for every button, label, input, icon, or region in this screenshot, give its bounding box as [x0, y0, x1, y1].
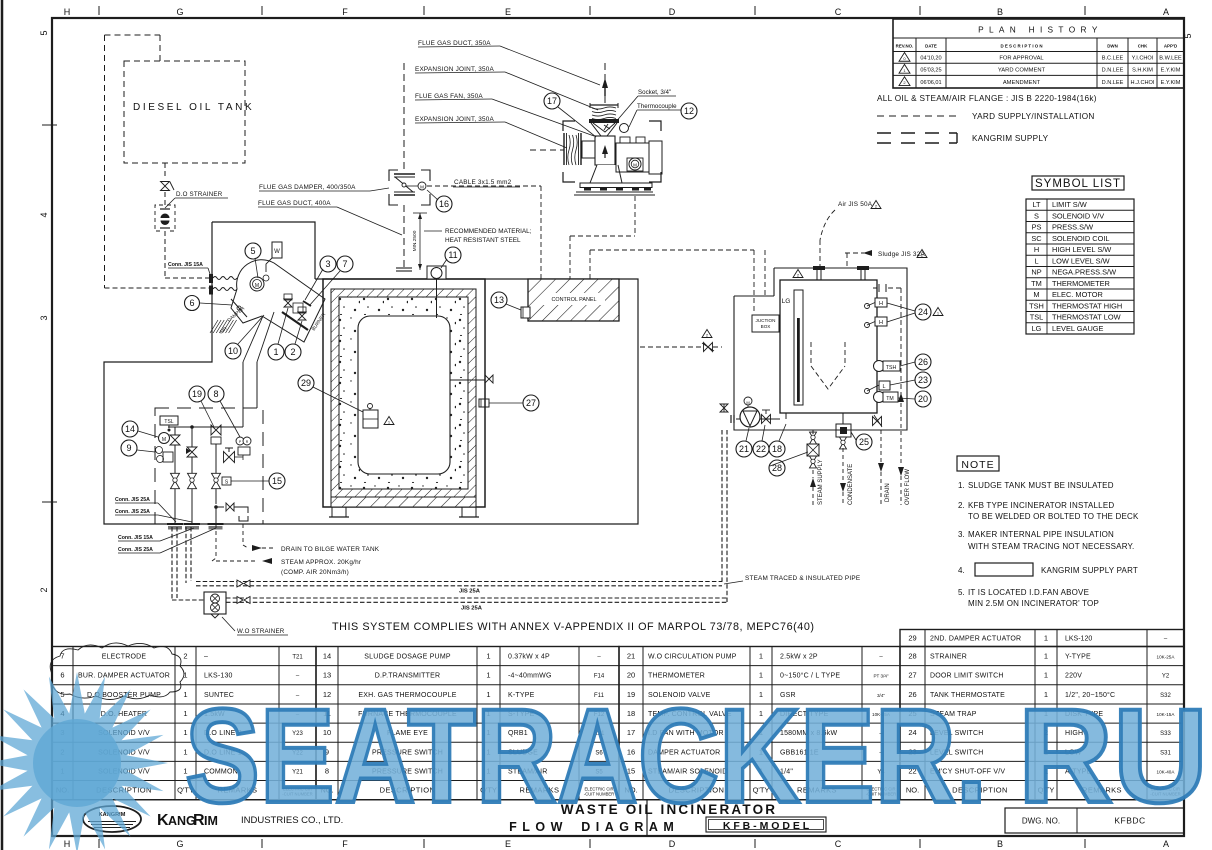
svg-text:Socket, 3/4": Socket, 3/4" — [638, 89, 671, 96]
svg-text:STEAM APPROX. 20Kg/hr: STEAM APPROX. 20Kg/hr — [281, 559, 362, 566]
svg-text:W.O CIRCULATION PUMP: W.O CIRCULATION PUMP — [648, 654, 737, 661]
svg-text:D.N.LEE: D.N.LEE — [1102, 68, 1124, 74]
svg-text:ELECTRODE: ELECTRODE — [102, 654, 147, 661]
svg-text:L: L — [882, 384, 885, 390]
svg-text:F: F — [342, 7, 348, 17]
svg-text:2ND. DAMPER ACTUATOR: 2ND. DAMPER ACTUATOR — [930, 636, 1021, 643]
svg-text:5: 5 — [250, 246, 255, 256]
svg-text:LEVEL GAUGE: LEVEL GAUGE — [1052, 324, 1104, 333]
svg-text:4.: 4. — [958, 566, 965, 575]
svg-text:STEAM TRACED & INSULATED PIPE: STEAM TRACED & INSULATED PIPE — [745, 575, 860, 582]
svg-text:M: M — [633, 163, 637, 168]
svg-text:MAKER INTERNAL PIPE INSULATION: MAKER INTERNAL PIPE INSULATION — [968, 530, 1114, 539]
svg-text:5.: 5. — [958, 588, 965, 597]
svg-text:TSH: TSH — [886, 365, 897, 371]
svg-text:14: 14 — [125, 424, 135, 434]
svg-text:27: 27 — [908, 671, 916, 680]
svg-text:E.Y.KIM: E.Y.KIM — [1161, 80, 1181, 86]
svg-text:Y.I.CHOI: Y.I.CHOI — [1132, 56, 1154, 62]
svg-text:OVER FLOW: OVER FLOW — [905, 469, 911, 505]
svg-text:17: 17 — [547, 96, 557, 106]
svg-text:NP: NP — [1031, 268, 1041, 277]
svg-text:1: 1 — [486, 671, 490, 680]
svg-text:H: H — [64, 839, 71, 849]
svg-text:1.: 1. — [958, 481, 965, 490]
svg-text:1: 1 — [1044, 634, 1048, 643]
svg-text:YARD SUPPLY/INSTALLATION: YARD SUPPLY/INSTALLATION — [972, 112, 1095, 121]
svg-text:BOX: BOX — [761, 324, 771, 329]
svg-text:0~150°C / L TYPE: 0~150°C / L TYPE — [780, 672, 840, 680]
svg-text:DATE: DATE — [925, 44, 937, 49]
svg-text:E.Y.KIM: E.Y.KIM — [1161, 68, 1181, 74]
svg-text:STRAINER: STRAINER — [930, 654, 967, 661]
svg-text:6: 6 — [189, 298, 194, 308]
svg-text:D.O STRAINER: D.O STRAINER — [176, 191, 223, 198]
svg-text:B: B — [997, 839, 1003, 849]
svg-text:SC: SC — [1031, 234, 1042, 243]
svg-text:TSL: TSL — [164, 419, 173, 425]
svg-text:1: 1 — [759, 671, 763, 680]
svg-text:CHK: CHK — [1138, 44, 1148, 49]
svg-text:SOLENOID COIL: SOLENOID COIL — [1052, 234, 1110, 243]
svg-text:RU: RU — [1018, 682, 1208, 831]
svg-text:L: L — [1034, 256, 1038, 265]
svg-text:MIN 2.5M ON INCINERATOR' TOP: MIN 2.5M ON INCINERATOR' TOP — [968, 599, 1099, 608]
svg-text:3.: 3. — [958, 530, 965, 539]
svg-text:HEAT RESISTANT STEEL: HEAT RESISTANT STEEL — [445, 237, 521, 244]
svg-text:Conn. JIS 15A: Conn. JIS 15A — [168, 262, 203, 268]
svg-text:SLUDGE DOSAGE PUMP: SLUDGE DOSAGE PUMP — [364, 654, 451, 661]
svg-text:MIN.2500: MIN.2500 — [412, 230, 418, 251]
svg-text:12: 12 — [684, 106, 694, 116]
svg-text:TM: TM — [1031, 279, 1042, 288]
svg-text:LT: LT — [1032, 200, 1041, 209]
svg-text:D E S C R I P T I O N: D E S C R I P T I O N — [1000, 44, 1042, 49]
svg-text:FLUE GAS DAMPER, 400/350A: FLUE GAS DAMPER, 400/350A — [259, 184, 356, 191]
svg-text:CABLE 3x1.5 mm2: CABLE 3x1.5 mm2 — [454, 179, 512, 186]
svg-text:27: 27 — [526, 398, 536, 408]
svg-text:LIMIT S/W: LIMIT S/W — [1052, 200, 1087, 209]
svg-text:23: 23 — [918, 375, 928, 385]
svg-text:LG: LG — [1032, 324, 1042, 333]
svg-text:H.J.CHOI: H.J.CHOI — [1131, 80, 1155, 86]
svg-text:F14: F14 — [594, 674, 605, 680]
svg-text:A: A — [1163, 7, 1169, 17]
svg-text:STEAM SUPPLY: STEAM SUPPLY — [818, 459, 824, 505]
svg-text:YARD COMMENT: YARD COMMENT — [998, 68, 1046, 74]
svg-text:Y-TYPE: Y-TYPE — [1065, 654, 1091, 661]
svg-text:20: 20 — [918, 394, 928, 404]
svg-text:E: E — [505, 839, 511, 849]
svg-text:LOW LEVEL S/W: LOW LEVEL S/W — [1052, 256, 1110, 265]
svg-text:2: 2 — [39, 587, 49, 592]
svg-text:WITH STEAM TRACING NOT NECESSA: WITH STEAM TRACING NOT NECESSARY. — [968, 542, 1134, 551]
svg-text:DRAIN: DRAIN — [885, 483, 891, 502]
svg-text:Thermocouple: Thermocouple — [637, 103, 677, 110]
svg-text:LKS-120: LKS-120 — [1065, 636, 1092, 643]
svg-text:H: H — [64, 7, 71, 17]
svg-text:24: 24 — [918, 307, 928, 317]
svg-text:ELEC. MOTOR: ELEC. MOTOR — [1052, 290, 1103, 299]
svg-text:NOTE: NOTE — [961, 459, 994, 471]
svg-text:A: A — [1163, 839, 1169, 849]
svg-text:7: 7 — [342, 259, 347, 269]
svg-text:REV.NO.: REV.NO. — [896, 44, 914, 49]
svg-text:3: 3 — [39, 315, 49, 320]
svg-text:1: 1 — [1044, 671, 1048, 680]
svg-text:2: 2 — [290, 347, 295, 357]
svg-text:Conn. JIS 25A: Conn. JIS 25A — [115, 497, 150, 503]
svg-text:LKS-130: LKS-130 — [204, 673, 233, 680]
svg-text:APP'D: APP'D — [1164, 44, 1177, 49]
svg-text:SOLENOID V/V: SOLENOID V/V — [1052, 211, 1104, 220]
svg-text:6: 6 — [60, 671, 64, 680]
svg-text:W: W — [274, 249, 280, 255]
svg-text:KANGRIM SUPPLY PART: KANGRIM SUPPLY PART — [1041, 566, 1138, 575]
svg-text:TSH: TSH — [1029, 301, 1044, 310]
svg-text:29: 29 — [301, 378, 311, 388]
svg-text:B.C.LEE: B.C.LEE — [1102, 56, 1124, 62]
svg-text:JIS 25A: JIS 25A — [459, 589, 481, 595]
svg-text:G: G — [176, 7, 183, 17]
svg-text:29: 29 — [908, 634, 916, 643]
svg-text:05'03,25: 05'03,25 — [920, 68, 941, 74]
svg-text:1: 1 — [1044, 652, 1048, 661]
svg-text:IT IS LOCATED I.D.FAN ABOVE: IT IS LOCATED I.D.FAN ABOVE — [968, 588, 1089, 597]
svg-text:0.37kW x 4P: 0.37kW x 4P — [508, 654, 550, 661]
svg-text:PS: PS — [1032, 223, 1042, 232]
svg-text:AMENDMENT: AMENDMENT — [1003, 80, 1041, 86]
svg-text:13: 13 — [323, 671, 331, 680]
svg-text:FLUE GAS DUCT, 400A: FLUE GAS DUCT, 400A — [258, 200, 331, 207]
svg-text:21: 21 — [627, 652, 635, 661]
svg-text:BUR. DAMPER ACTUATOR: BUR. DAMPER ACTUATOR — [78, 673, 170, 680]
svg-text:THERMOSTAT LOW: THERMOSTAT LOW — [1052, 313, 1121, 322]
svg-text:21: 21 — [739, 444, 749, 454]
svg-text:C: C — [835, 7, 842, 17]
svg-text:D: D — [669, 7, 676, 17]
svg-text:B.W.LEE: B.W.LEE — [1159, 56, 1182, 62]
svg-text:KFB TYPE INCINERATOR INSTALLED: KFB TYPE INCINERATOR INSTALLED — [968, 501, 1114, 510]
svg-text:15: 15 — [272, 476, 282, 486]
svg-text:M: M — [162, 437, 166, 443]
svg-text:1: 1 — [486, 652, 490, 661]
svg-text:PRESS.S/W: PRESS.S/W — [1052, 223, 1093, 232]
svg-text:S.H.KIM: S.H.KIM — [1132, 68, 1153, 74]
svg-text:04'10,20: 04'10,20 — [920, 56, 941, 62]
svg-text:25: 25 — [859, 437, 869, 447]
svg-text:W.O STRAINER: W.O STRAINER — [237, 628, 285, 635]
svg-text:T21: T21 — [292, 655, 303, 661]
svg-text:1: 1 — [759, 652, 763, 661]
svg-text:2.: 2. — [958, 501, 965, 510]
svg-text:D.P.TRANSMITTER: D.P.TRANSMITTER — [375, 673, 441, 680]
svg-text:DOOR LIMIT SWITCH: DOOR LIMIT SWITCH — [930, 673, 1004, 680]
svg-text:SYMBOL LIST: SYMBOL LIST — [1035, 178, 1121, 190]
svg-text:NEGA.PRESS.S/W: NEGA.PRESS.S/W — [1052, 268, 1116, 277]
svg-text:RECOMMENDED MATERIAL;: RECOMMENDED MATERIAL; — [445, 228, 532, 235]
svg-text:JUCTION: JUCTION — [756, 318, 776, 323]
svg-text:4: 4 — [39, 212, 49, 217]
svg-text:TSL: TSL — [1030, 313, 1044, 322]
svg-text:(COMP. AIR 20Nm3/h): (COMP. AIR 20Nm3/h) — [281, 569, 349, 576]
svg-text:26: 26 — [918, 357, 928, 367]
svg-text:KANGRIM SUPPLY: KANGRIM SUPPLY — [972, 134, 1049, 143]
svg-text:F: F — [342, 839, 348, 849]
svg-text:HIGH LEVEL S/W: HIGH LEVEL S/W — [1052, 245, 1111, 254]
svg-text:P L A N H I S T O R Y: P L A N H I S T O R Y — [978, 25, 1099, 35]
svg-text:DIESEL OIL TANK: DIESEL OIL TANK — [133, 102, 254, 113]
svg-text:SEATRACKER.: SEATRACKER. — [185, 682, 987, 831]
svg-text:10K-25A: 10K-25A — [1157, 655, 1176, 660]
svg-text:M: M — [255, 283, 259, 289]
svg-text:Conn. JIS 15A: Conn. JIS 15A — [118, 535, 153, 541]
svg-text:B: B — [997, 7, 1003, 17]
svg-text:11: 11 — [448, 250, 457, 260]
svg-text:14: 14 — [323, 652, 331, 661]
svg-text:M: M — [420, 185, 424, 190]
svg-text:M: M — [746, 400, 749, 405]
svg-text:Sludge JIS 32A: Sludge JIS 32A — [878, 251, 925, 258]
svg-text:9: 9 — [126, 443, 131, 453]
svg-text:FOR APPROVAL: FOR APPROVAL — [999, 56, 1044, 62]
svg-text:E: E — [505, 7, 511, 17]
svg-text:2: 2 — [183, 652, 187, 661]
svg-text:18: 18 — [772, 444, 782, 454]
svg-text:THERMOMETER: THERMOMETER — [648, 673, 705, 680]
svg-text:D: D — [669, 839, 676, 849]
svg-text:28: 28 — [908, 652, 916, 661]
svg-text:1: 1 — [273, 347, 278, 357]
svg-text:TM: TM — [886, 396, 894, 402]
svg-text:220V: 220V — [1065, 673, 1082, 680]
svg-text:Conn. JIS 25A: Conn. JIS 25A — [118, 547, 153, 553]
svg-text:ALL OIL & STEAM/AIR FLANGE : J: ALL OIL & STEAM/AIR FLANGE : JIS B 2220-… — [877, 94, 1097, 103]
svg-text:2.5kW x 2P: 2.5kW x 2P — [780, 654, 818, 661]
svg-text:Air JIS 50A: Air JIS 50A — [838, 201, 873, 208]
svg-text:H: H — [879, 320, 883, 326]
svg-text:19: 19 — [192, 389, 202, 399]
svg-text:D.N.LEE: D.N.LEE — [1102, 80, 1124, 86]
svg-text:H: H — [1034, 245, 1039, 254]
svg-text:H: H — [879, 301, 883, 307]
svg-text:06'06,01: 06'06,01 — [920, 80, 941, 86]
svg-text:JIS 25A: JIS 25A — [461, 606, 483, 612]
svg-text:LG: LG — [782, 298, 791, 305]
svg-text:THIS SYSTEM COMPLIES WITH AN: THIS SYSTEM COMPLIES WITH ANNEX V-APPEND… — [332, 621, 815, 633]
svg-text:20: 20 — [627, 671, 635, 680]
svg-text:Y2: Y2 — [1162, 674, 1170, 680]
svg-text:CONDENSATE: CONDENSATE — [848, 464, 854, 505]
svg-text:8: 8 — [213, 389, 218, 399]
svg-text:–: – — [204, 654, 208, 661]
svg-text:C: C — [835, 839, 842, 849]
svg-text:TO BE WELDED OR BOLTED TO THE: TO BE WELDED OR BOLTED TO THE DECK — [968, 512, 1139, 521]
svg-text:SLUDGE TANK MUST BE INSULATED: SLUDGE TANK MUST BE INSULATED — [968, 481, 1114, 490]
svg-text:S: S — [1034, 211, 1039, 220]
svg-text:THERMOMETER: THERMOMETER — [1052, 279, 1110, 288]
svg-text:CONTROL PANEL: CONTROL PANEL — [552, 297, 597, 303]
svg-text:-4~40mmWG: -4~40mmWG — [508, 673, 552, 680]
svg-text:G: G — [176, 839, 183, 849]
svg-text:DWN: DWN — [1107, 44, 1118, 49]
svg-text:M: M — [1033, 290, 1039, 299]
svg-text:3: 3 — [325, 259, 330, 269]
svg-text:13: 13 — [494, 295, 504, 305]
svg-text:10: 10 — [228, 346, 238, 356]
svg-text:16: 16 — [439, 199, 449, 209]
svg-text:THERMOSTAT HIGH: THERMOSTAT HIGH — [1052, 301, 1122, 310]
svg-text:5: 5 — [39, 30, 49, 35]
svg-text:22: 22 — [756, 444, 766, 454]
svg-text:PT 3/4": PT 3/4" — [873, 674, 888, 679]
svg-text:DRAIN TO BILGE WATER TANK: DRAIN TO BILGE WATER TANK — [281, 546, 380, 553]
svg-text:Conn. JIS 25A: Conn. JIS 25A — [115, 509, 150, 515]
